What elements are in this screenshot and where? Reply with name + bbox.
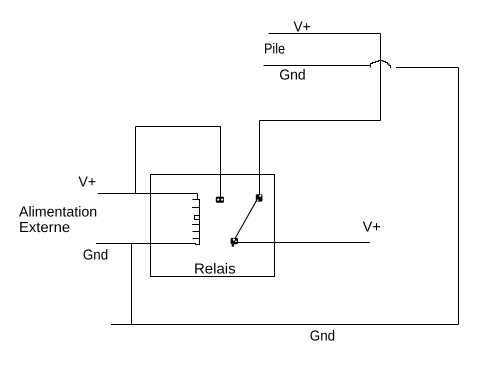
wire contact 1 vertical bbox=[220, 127, 222, 198]
wire battery to relay contact horizontal bbox=[260, 120, 381, 122]
wire battery gnd right segment bbox=[396, 67, 459, 69]
wire battery V+ horizontal bbox=[269, 33, 381, 35]
wire coil feedback left vertical bbox=[135, 127, 137, 194]
coil K1 comb bbox=[192, 194, 200, 245]
wire supply V+ to coil top bbox=[98, 193, 198, 195]
switch arm (armature) bbox=[234, 199, 257, 240]
svg-text:Relais: Relais bbox=[194, 262, 236, 278]
wire gnd bottom horizontal bbox=[111, 324, 459, 326]
svg-text:Alimentation: Alimentation bbox=[19, 204, 97, 220]
wire contact 2 vertical bbox=[259, 121, 261, 196]
wire battery gnd left segment bbox=[264, 65, 371, 68]
contact dot 1 (normally-closed terminal) bbox=[216, 197, 224, 203]
wire hop over V+ vertical bbox=[371, 61, 391, 69]
contact dot 2 (normally-open terminal) bbox=[256, 194, 263, 201]
svg-text:Externe: Externe bbox=[19, 220, 70, 236]
wire supply gnd to coil bottom bbox=[96, 243, 196, 245]
svg-text:V+: V+ bbox=[78, 174, 96, 190]
wire battery V+ vertical bbox=[380, 34, 382, 121]
svg-text:Gnd: Gnd bbox=[83, 247, 108, 263]
svg-text:Gnd: Gnd bbox=[279, 68, 305, 84]
svg-text:V+: V+ bbox=[363, 220, 381, 236]
svg-text:Gnd: Gnd bbox=[310, 328, 335, 344]
wire common to V+ right bbox=[238, 242, 370, 244]
wire coil gnd down vertical bbox=[131, 244, 133, 325]
wire coil feedback top horizontal bbox=[136, 126, 222, 128]
relay box bbox=[151, 175, 275, 277]
svg-text:Pile: Pile bbox=[264, 41, 285, 57]
wire gnd right vertical bbox=[458, 68, 460, 325]
contact dot 3 (common terminal) bbox=[231, 238, 238, 247]
